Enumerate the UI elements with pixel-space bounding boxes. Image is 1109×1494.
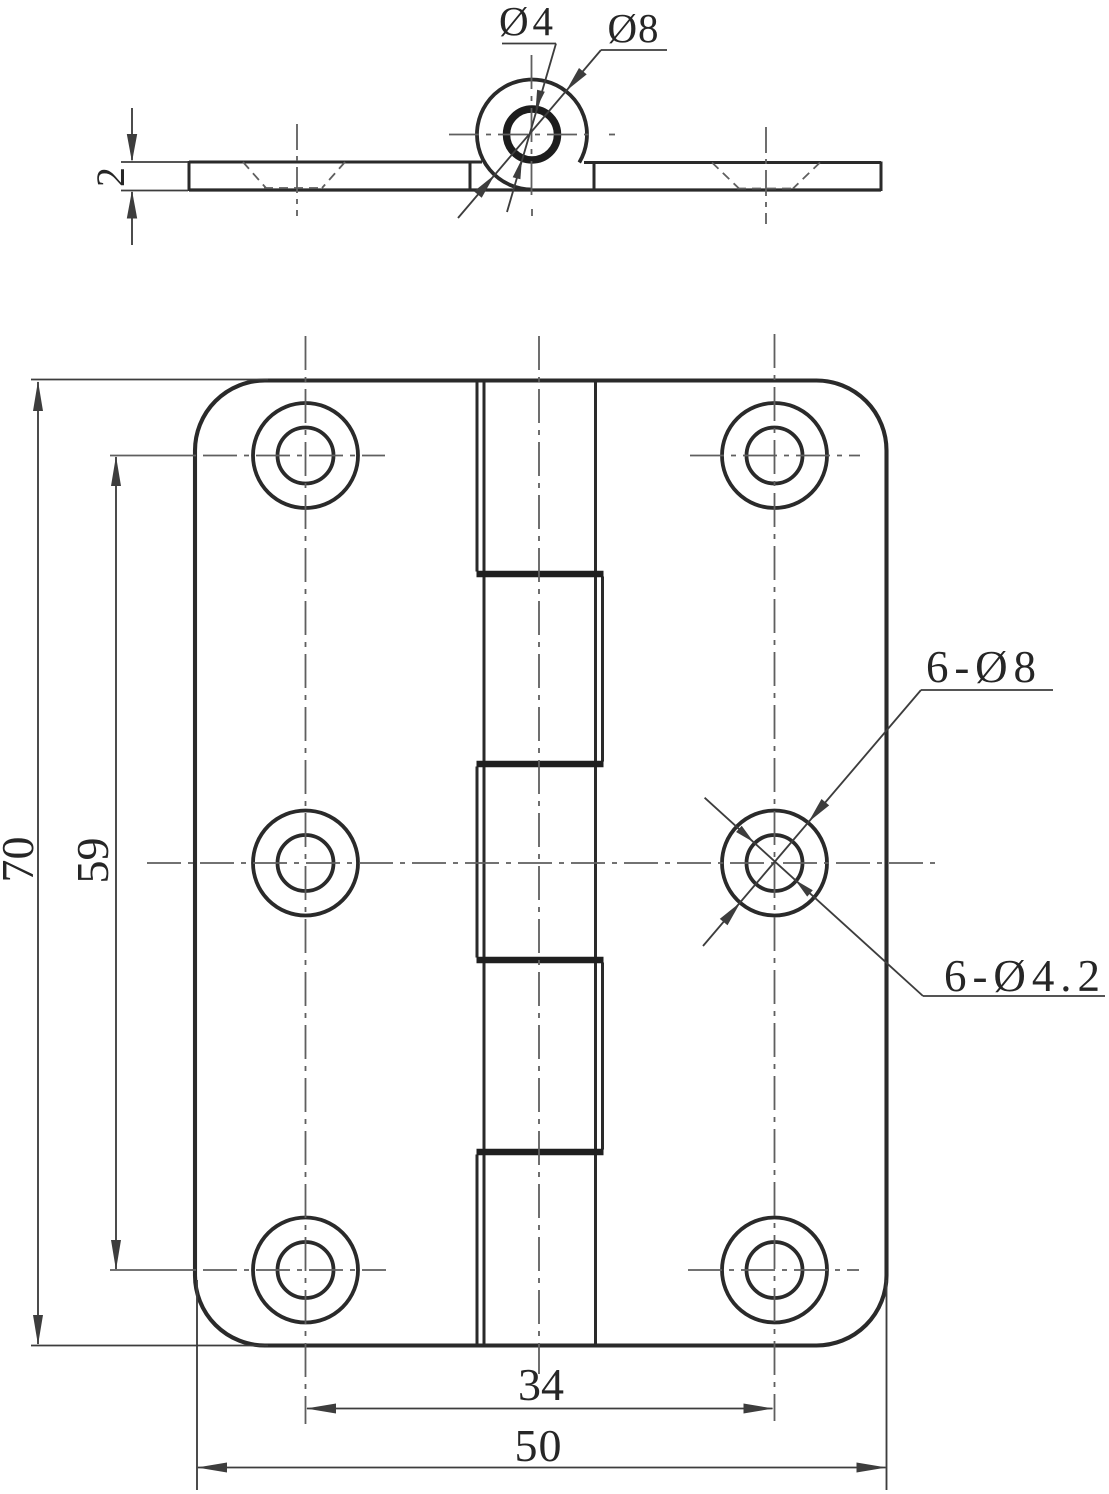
svg-text:2: 2 — [88, 167, 133, 187]
centerline middle hole row — [147, 862, 942, 864]
hole middle-right inner circle — [747, 835, 803, 891]
hole top-right outer circle — [722, 403, 827, 508]
centerline top hole row left — [110, 455, 196, 457]
hole top-left outer circle — [253, 403, 358, 508]
top view: left countersink centerline — [296, 124, 298, 216]
dimension 2: arrowheads — [127, 134, 137, 162]
hole bottom-right inner circle — [747, 1242, 803, 1298]
centerline top hole row right — [690, 455, 860, 457]
svg-text:Ø8: Ø8 — [608, 5, 659, 51]
top view: plate bottom edge — [189, 188, 881, 191]
knuckle joint band 1 — [477, 571, 604, 578]
label O8: leader line — [458, 50, 601, 218]
hole middle-right outer circle — [722, 811, 827, 916]
dimension 50: extension lines — [196, 1280, 198, 1490]
hole bottom-left outer circle — [253, 1218, 358, 1323]
label O8: arrowheads — [566, 68, 587, 91]
dimension 70: extension lines — [31, 379, 268, 381]
hole middle-left inner circle — [278, 835, 334, 891]
top view: left leaf plate top edge — [189, 161, 482, 164]
barrel right inner line full height — [594, 381, 597, 1346]
hole top-left inner circle — [278, 428, 334, 484]
centerline barrel axis — [538, 336, 540, 1374]
dimension 70: dimension line — [37, 382, 39, 1344]
top view: left seam at barrel — [469, 162, 472, 190]
dimension 59: arrowheads — [111, 456, 121, 486]
top view: right leaf right end — [880, 162, 883, 192]
top view: left leaf left end — [188, 161, 191, 191]
dimension 2: dimension lines — [131, 108, 133, 160]
top view: pin bore thick ring — [507, 109, 558, 160]
dimension 34: dimension line — [307, 1408, 773, 1410]
svg-text:59: 59 — [67, 838, 118, 884]
hole top-right inner circle — [747, 428, 803, 484]
label O4: underline — [502, 43, 556, 45]
dimension 34: arrowheads — [306, 1404, 336, 1414]
hole bottom-left inner circle — [278, 1242, 334, 1298]
label O8: underline — [601, 49, 667, 51]
dimension 50: arrowheads — [197, 1463, 227, 1473]
svg-text:34: 34 — [518, 1359, 564, 1410]
svg-text:6-Ø8: 6-Ø8 — [926, 642, 1036, 692]
centerline left hole column — [305, 336, 307, 1424]
centerline bottom hole row right — [688, 1269, 859, 1271]
top view: right seam at barrel — [593, 163, 596, 191]
label O4: arrowheads — [536, 90, 545, 110]
hole middle-left outer circle — [253, 811, 358, 916]
top view: right countersink dashed — [712, 163, 820, 189]
barrel right outer line segments (knuckles 2,4) — [601, 577, 604, 1150]
label 6-O8: arrowheads — [809, 799, 830, 822]
top view: right leaf top edge — [584, 161, 881, 164]
label 6-O4.2: leader line — [705, 798, 923, 996]
top view: barrel vertical centerline — [531, 55, 533, 196]
svg-text:Ø4: Ø4 — [499, 0, 553, 44]
svg-text:50: 50 — [515, 1420, 562, 1471]
label 6-O4.2: underline — [923, 995, 1105, 997]
label O4: leader line — [507, 44, 556, 213]
label 6-O8: leader line — [703, 690, 921, 946]
svg-text:70: 70 — [0, 837, 43, 883]
dimension 50: dimension line — [198, 1467, 886, 1469]
hinge body outline rounded rect — [195, 381, 887, 1346]
centerline right hole column — [774, 334, 776, 1421]
barrel left outer line segments (knuckles 1,3,5) — [476, 381, 479, 1346]
dimension 59: dimension line — [115, 457, 117, 1269]
barrel left inner line full height — [483, 381, 486, 1346]
centerline bottom hole row left — [110, 1269, 196, 1271]
label 6-O4.2: arrowheads — [795, 880, 813, 897]
top view: right countersink centerline — [765, 127, 767, 224]
hole bottom-right outer circle — [722, 1218, 827, 1323]
knuckle joint band 2 — [477, 761, 604, 768]
dimension 2: extension lines — [121, 161, 188, 163]
knuckle joint band 3 — [477, 957, 604, 964]
top view: barrel outer circle — [477, 80, 587, 190]
top view: left countersink dashed — [243, 162, 345, 188]
top view: barrel horizontal centerline — [449, 134, 592, 136]
label 6-O8: underline — [921, 689, 1053, 691]
dimension 70: arrowheads — [33, 381, 43, 411]
knuckle joint band 4 — [477, 1149, 604, 1156]
